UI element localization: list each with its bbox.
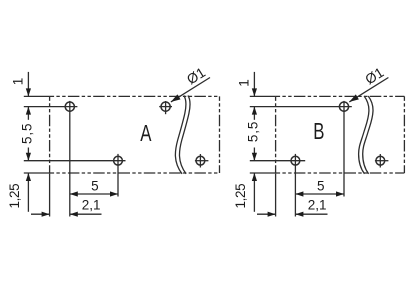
svg-text:1,25: 1,25: [7, 184, 22, 209]
svg-text:5: 5: [91, 178, 99, 193]
svg-text:5,5: 5,5: [19, 123, 34, 144]
svg-text:2,1: 2,1: [82, 197, 101, 212]
svg-text:2,1: 2,1: [308, 197, 327, 212]
svg-text:B: B: [313, 120, 324, 145]
svg-text:A: A: [140, 122, 152, 147]
svg-text:1,25: 1,25: [233, 184, 248, 209]
svg-text:5,5: 5,5: [245, 121, 260, 142]
svg-text:1: 1: [237, 79, 252, 87]
svg-text:5: 5: [317, 178, 325, 193]
svg-text:1: 1: [11, 78, 26, 86]
